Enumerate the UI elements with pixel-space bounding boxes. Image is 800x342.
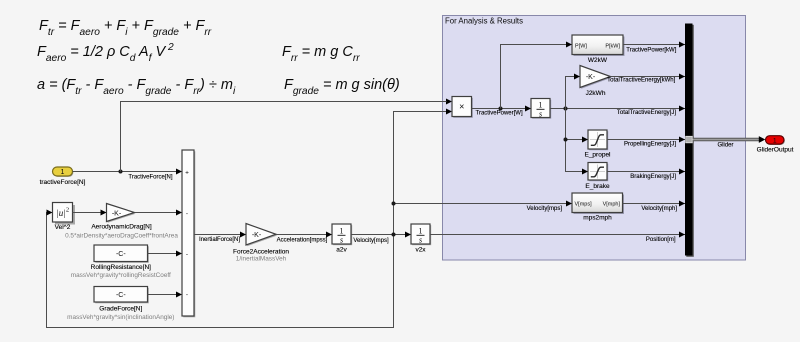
svg-text:-K-: -K- <box>586 74 596 81</box>
svg-text:massVeh*gravity*rollingResistC: massVeh*gravity*rollingResistCoeff <box>71 272 171 279</box>
svg-text:2: 2 <box>66 207 69 214</box>
product block <box>452 97 473 118</box>
wire Vel^2 to gain <box>73 210 107 216</box>
wire v2x to mux Position[m] <box>430 232 685 243</box>
inport tractiveForce[N] <box>40 167 86 186</box>
integrator a2v <box>332 224 352 253</box>
svg-text:-: - <box>186 211 188 218</box>
equation F_aero <box>37 42 174 64</box>
svg-text:W2kW: W2kW <box>588 57 608 64</box>
svg-text:-: - <box>186 251 188 258</box>
junction node tractive power <box>499 107 503 111</box>
svg-text:InertialForce[N]: InertialForce[N] <box>199 237 240 243</box>
svg-text:+: + <box>185 170 189 177</box>
block Vel^2 <box>53 203 76 232</box>
equation F_grade <box>284 77 400 97</box>
wire J2kWh to mux TotalTractiveEnergy[kWh] <box>607 74 685 84</box>
svg-text:Force2Acceleration: Force2Acceleration <box>233 249 289 256</box>
svg-text:TractivePower[W]: TractivePower[W] <box>476 110 523 116</box>
wire gain to sum <box>135 210 183 216</box>
svg-text:×: × <box>459 102 464 112</box>
gain AerodynamicDrag[N] <box>65 204 178 240</box>
mux output connector <box>686 136 693 143</box>
wire velocity up to product <box>394 109 453 235</box>
wire mps2mph to mux Velocity[mph] <box>623 201 686 213</box>
gain Force2Acceleration <box>233 224 289 263</box>
svg-text:Velocity[mps]: Velocity[mps] <box>527 206 563 212</box>
wire product to integrator <box>472 106 532 117</box>
sum block <box>182 150 195 317</box>
svg-text:RollingResistance[N]: RollingResistance[N] <box>91 264 152 271</box>
saturation E_propel <box>584 130 611 159</box>
junction node velocity mps <box>392 202 396 206</box>
wire to E_propel and E_brake <box>566 109 589 175</box>
svg-text:AerodynamicDrag[N]: AerodynamicDrag[N] <box>91 224 152 231</box>
svg-text:0.5*airDensity*aeroDragCoeff*f: 0.5*airDensity*aeroDragCoeff*frontArea <box>65 233 178 240</box>
subsystem W2kW <box>572 35 625 64</box>
svg-text:Vel^2: Vel^2 <box>55 224 71 231</box>
outport GliderOutput <box>757 136 794 154</box>
svg-text:P[kW]: P[kW] <box>605 44 620 50</box>
wire to W2kW <box>501 42 573 109</box>
junction node tractive force <box>119 170 123 174</box>
junction node total energy <box>564 107 568 111</box>
svg-text:PropellingEnergy[J]: PropellingEnergy[J] <box>624 142 676 148</box>
svg-text:-: - <box>186 292 188 299</box>
mux bus creator <box>685 24 694 257</box>
constant RollingResistance[N] <box>71 245 171 279</box>
svg-text:mps2mph: mps2mph <box>583 215 612 222</box>
subsystem area For Analysis & Results <box>443 16 746 261</box>
wire W2kW to mux TractivePower[kW] <box>623 42 685 54</box>
wire sum to Force2Acceleration <box>194 232 246 244</box>
svg-text:tractiveForce[N]: tractiveForce[N] <box>40 179 86 186</box>
svg-text:v2x: v2x <box>415 246 426 253</box>
integrator W2J <box>531 99 551 119</box>
integrator v2x <box>411 224 431 253</box>
wire tractiveForce to sum <box>73 169 183 181</box>
svg-text:TractivePower[kW]: TractivePower[kW] <box>626 48 676 54</box>
wire velocity to mps2mph <box>394 201 573 212</box>
saturation E_brake <box>585 163 610 190</box>
gain J2kWh <box>580 66 612 98</box>
svg-text:J2kWh: J2kWh <box>586 90 606 97</box>
svg-text:E_propel: E_propel <box>584 152 611 159</box>
svg-text:s: s <box>419 236 422 245</box>
wire velocity feedback loop <box>47 210 394 328</box>
wire to J2kWh <box>566 74 581 109</box>
wire tractive force up to product <box>121 99 453 172</box>
wire E_propel to mux PropellingEnergy[J] <box>607 137 685 148</box>
svg-text:|u|: |u| <box>56 208 65 218</box>
constant GradeForce[N] <box>67 287 174 322</box>
svg-text:TractiveForce[N]: TractiveForce[N] <box>128 174 172 180</box>
svg-text:For Analysis & Results: For Analysis & Results <box>445 17 523 26</box>
junction node velocity <box>392 233 396 237</box>
svg-text:-C-: -C- <box>116 251 126 258</box>
svg-text:a2v: a2v <box>336 246 347 253</box>
svg-text:Velocity[mps]: Velocity[mps] <box>353 238 389 244</box>
svg-text:-K-: -K- <box>252 232 262 239</box>
svg-text:1/inertialMassVeh: 1/inertialMassVeh <box>236 256 287 263</box>
svg-text:massVeh*gravity*sin(inclinatio: massVeh*gravity*sin(inclinationAngle) <box>67 314 174 321</box>
svg-text:1: 1 <box>61 169 65 176</box>
svg-text:TotalTractiveEnergy[J]: TotalTractiveEnergy[J] <box>617 110 676 116</box>
wire GradeForce to sum <box>148 292 183 298</box>
svg-text:Glider: Glider <box>717 142 733 148</box>
svg-text:Acceleration[mpss]: Acceleration[mpss] <box>277 238 328 244</box>
svg-text:BrakingEnergy[J]: BrakingEnergy[J] <box>630 174 676 180</box>
svg-text:s: s <box>539 110 542 119</box>
wire Glider to outport <box>693 136 766 148</box>
svg-text:P[W]: P[W] <box>575 44 587 50</box>
equation a <box>37 77 236 97</box>
svg-text:1: 1 <box>539 101 543 110</box>
wire integrator to mux TotalTractiveEnergy[J] <box>550 106 685 117</box>
svg-text:1: 1 <box>340 227 344 236</box>
wire Force2Acceleration to a2v <box>276 232 332 244</box>
svg-text:-K-: -K- <box>112 210 122 217</box>
svg-text:TotalTractiveEnergy[kWh]: TotalTractiveEnergy[kWh] <box>607 78 675 84</box>
svg-text:E_brake: E_brake <box>585 183 610 190</box>
svg-text:GliderOutput: GliderOutput <box>757 147 794 154</box>
junction node E_propel <box>564 138 568 142</box>
svg-text:Position[m]: Position[m] <box>646 237 676 243</box>
equation F_tr <box>39 18 212 38</box>
svg-text:s: s <box>340 236 343 245</box>
svg-text:1: 1 <box>773 138 777 145</box>
wire a2v to v2x <box>351 232 411 245</box>
svg-text:V[mps]: V[mps] <box>575 202 593 208</box>
svg-text:1: 1 <box>419 227 423 236</box>
svg-text:-C-: -C- <box>116 292 126 299</box>
svg-text:V[mph]: V[mph] <box>603 202 621 208</box>
wire E_brake to mux BrakingEnergy[J] <box>607 169 685 180</box>
wire RollingResistance to sum <box>148 251 183 257</box>
equation F_rr <box>282 44 360 64</box>
svg-text:GradeForce[N]: GradeForce[N] <box>99 305 142 312</box>
subsystem mps2mph <box>572 193 624 222</box>
svg-text:Velocity[mph]: Velocity[mph] <box>641 206 677 212</box>
